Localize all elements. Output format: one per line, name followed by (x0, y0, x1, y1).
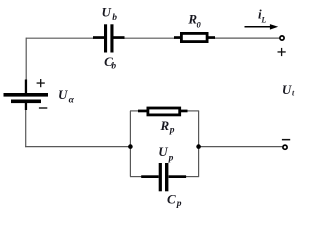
svg-text:b: b (111, 62, 116, 72)
svg-text:p: p (169, 126, 175, 136)
svg-text:L: L (260, 16, 266, 25)
svg-text:p: p (176, 199, 182, 209)
svg-text:C: C (167, 192, 176, 207)
svg-text:α: α (69, 96, 75, 106)
svg-text:U: U (158, 144, 168, 159)
svg-text:U: U (58, 87, 68, 102)
svg-text:p: p (168, 154, 174, 164)
svg-text:b: b (112, 13, 117, 23)
svg-text:R: R (160, 118, 170, 133)
svg-text:U: U (102, 5, 112, 20)
svg-text:U: U (282, 82, 292, 97)
